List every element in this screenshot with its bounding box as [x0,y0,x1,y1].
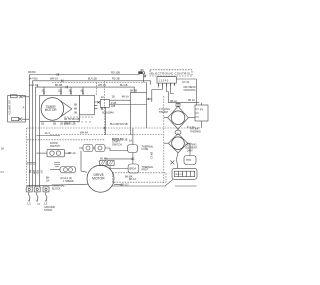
svg-text:LID SWITCH: LID SWITCH [8,100,11,115]
wire timer pin 3B stub [70,87,72,95]
splice X right1 [170,160,174,164]
wire 1a-4 short line [36,135,60,137]
wire ec right link [176,78,196,80]
svg-text:9B: 9B [74,112,77,115]
svg-text:1A: 1A [101,96,104,99]
ec pin ticks [159,83,175,86]
wire left lid box bottom link [22,118,30,120]
terminal L2 [43,187,49,192]
svg-text:RD BU: RD BU [28,71,36,74]
wire cord L2 [46,192,48,201]
timer cam pointer [61,101,72,117]
svg-text:BK-8B: BK-8B [130,90,138,93]
svg-text:12B: 12B [111,105,116,108]
svg-text:1A: 1A [129,139,132,142]
node dashed crossing dot [104,127,106,129]
timer outer box [40,95,80,121]
wire buzzer left link [50,169,60,171]
heater2 top oval [175,130,181,134]
svg-text:14-4 BU: 14-4 BU [29,77,38,80]
wire heater1 top stub [177,103,179,107]
wire timer pin 6B stub [82,87,84,95]
svg-text:STRAP: STRAP [44,209,53,212]
svg-text:RD-2A BU-1B: RD-2A BU-1B [112,139,128,142]
wire strip to bottom line [111,179,173,186]
svg-text:8B: 8B [74,108,77,111]
timer motor circle [41,98,64,121]
drive motor circle [87,165,114,192]
svg-text:14-4 GY: 14-4 GY [29,84,39,87]
connector ticks on buses [43,73,92,123]
heater lower blob [170,153,197,180]
wire dashed vertical left [26,128,28,183]
heater1 top terminal [176,103,180,106]
svg-text:WH: WH [32,170,35,174]
svg-text:CONTROL: CONTROL [184,89,197,92]
timer contact bank box [80,95,95,115]
wire timer pin 12B stub [60,87,62,95]
unbalance switch box [47,149,65,156]
terminal L1 [26,187,32,192]
svg-text:RD: RD [36,170,39,174]
wire blob drop [143,74,145,82]
wire ec feeder a [146,82,148,128]
motor terminal box2 [108,161,115,166]
belt switch blob [128,145,138,153]
wire terminal block line [26,185,51,187]
wire dashed vertical bank [95,82,97,95]
wire motor right to bottom line [114,184,121,186]
wire dashed right enclosure [163,96,165,183]
wire regulator bottom drop [201,121,203,128]
buzzer comp [60,167,76,173]
svg-text:BR2A: BR2A [130,168,137,171]
svg-text:4B 7B 9B 11B: 4B 7B 9B 11B [64,118,80,121]
wire cord end ticks [28,200,47,202]
svg-text:BU-1B: BU-1B [120,84,128,87]
connector ticks timer pins [43,92,45,93]
wire motor bottom-left feed [51,184,88,185]
wire bus L1 top [29,74,139,76]
svg-text:THERMO: THERMO [190,131,201,134]
wire cord N [37,192,39,201]
node junction dot right column [148,98,150,100]
wire small box right link [109,104,146,106]
start switch comp2 [95,145,105,152]
svg-text:BU-12B: BU-12B [88,77,97,80]
wire cord L1 [29,192,31,201]
svg-text:THERM: THERM [159,111,168,114]
svg-text:BK: BK [141,69,145,72]
electronic control inner box [157,77,176,83]
wire bus N [32,81,150,85]
node junction terminals top right [139,72,146,77]
svg-text:2A: 2A [1,148,4,151]
regulator box right [195,105,208,121]
svg-text:2B 6B 8B 12B: 2B 6B 8B 12B [60,123,76,126]
wire bus N left drop [31,81,33,187]
svg-text:BK-1A: BK-1A [129,178,137,181]
wire center column between blobs [132,153,134,165]
svg-text:N: N [38,202,40,206]
svg-text:2A-: 2A- [46,180,50,183]
svg-text:BK-GY: BK-GY [121,184,129,187]
wire drive motor left feed [65,152,71,154]
svg-text:GY: GY [40,170,43,174]
terminal strip right [172,168,197,179]
bank bottom row2 ticks [66,121,90,123]
center lower blob [128,164,139,173]
svg-text:MOTOR: MOTOR [92,177,105,181]
terminal N [34,187,40,192]
wire comp to blob [105,148,128,151]
svg-text:PROT: PROT [142,169,149,172]
wire dashed harness line B [50,133,164,135]
heater2 circle [172,137,185,150]
wire bus L2 left drop [35,87,37,187]
wire relay drop right [130,100,132,135]
wire bus L1 left drop [28,75,30,188]
wire series comps link [93,147,95,149]
fuse top-left inline [10,95,17,98]
svg-text:MOTOR: MOTOR [45,108,58,112]
wire bottom line right [175,185,197,187]
switch box left assembly [8,96,26,123]
wire ec feeder b [151,90,153,103]
svg-text:2B: 2B [112,96,115,99]
svg-text:HTR: HTR [186,159,191,162]
heater1 diamond [168,106,189,129]
wire dryness feed [167,92,169,103]
svg-text:1B: 1B [41,123,44,126]
svg-text:GY: GY [1,171,5,174]
electronic control dashed box [150,70,192,76]
svg-text:a b c d: a b c d [176,173,184,176]
svg-text:L1: L1 [28,202,32,206]
wire ec pin drops [158,83,160,87]
splice hook [177,153,178,169]
svg-text:BK: BK [28,170,31,174]
relay box center [100,100,109,108]
wire bus L2 [36,87,135,93]
svg-text:SWITCH: SWITCH [112,143,122,146]
wire relay right link [131,93,135,101]
svg-text:4B 1A: 4B 1A [188,99,195,102]
wire right ec drop [195,79,197,105]
svg-text:BLOCK: BLOCK [52,187,61,190]
svg-text:BK-1A: BK-1A [69,152,77,155]
wire series comps to motor area [79,147,83,149]
wire regulator drop [201,103,203,105]
svg-text:1 SPEED: 1 SPEED [63,180,74,183]
start switch comp1 [83,145,93,152]
wire junction drop right column [147,98,152,100]
svg-text:5B: 5B [53,123,56,126]
fuse bottom-left inline [12,118,19,121]
svg-text:WH-2A: WH-2A [98,84,106,87]
svg-text:M1 M2: M1 M2 [100,158,108,161]
heater1 circle [171,111,185,125]
wire right column top [168,102,199,104]
svg-text:BU-10B WH-5B: BU-10B WH-5B [110,123,128,126]
svg-text:FUSE: FUSE [142,148,149,151]
terminal X top-left [19,95,22,98]
motor terminal box1 [100,161,107,166]
svg-text:1 2 3 4 5: 1 2 3 4 5 [159,80,169,83]
svg-text:SWITCH: SWITCH [50,145,60,148]
connector ticks left verticals [26,163,35,165]
connector ticks blob column [131,158,134,160]
svg-text:BK-6B: BK-6B [55,84,63,87]
svg-text:240V: 240V [187,150,193,153]
svg-text:RD-3B: RD-3B [112,77,120,80]
wire blob2 to motor [110,166,128,168]
wire vertical 4th drop [39,122,41,188]
wire corner run y86.6 [134,92,146,94]
svg-text:B-1A2B4A: B-1A2B4A [102,111,114,114]
small symbol below [54,163,60,167]
wire heater1 bottom to heater2 [177,129,179,130]
cabinet dashed box bottom [113,173,167,182]
bank right stubs [94,102,100,109]
svg-text:6B: 6B [74,104,77,107]
wire upper motor horizontal [104,158,132,160]
svg-text:GY-3A: GY-3A [182,81,190,84]
wire dashed harness line A [27,127,200,129]
wire switch left feed [36,152,47,154]
wire center column vertical [132,128,134,145]
svg-text:4B-1A: 4B-1A [170,100,177,103]
terminal X bottom-left [19,118,22,121]
svg-text:1A-4: 1A-4 [45,132,51,135]
svg-text:4B-1A: 4B-1A [122,96,129,99]
heater2 diamond [168,134,187,153]
svg-text:WH-4A: WH-4A [80,132,88,135]
svg-text:ELECTRONIC CONTROL: ELECTRONIC CONTROL [151,71,191,75]
wire hi-limit link [188,143,190,155]
svg-text:WH-1A: WH-1A [50,77,58,80]
wire left lid box top link [23,96,30,98]
wire comp1 drop to motor [81,151,87,173]
wire timer pin 2B stub [43,87,45,95]
wire dashed harness line C [27,139,104,141]
connector ticks bank bottom [65,116,92,118]
wire dashed vertical center [103,81,105,136]
svg-text:BK-12: BK-12 [150,152,153,160]
svg-text:RD-10B: RD-10B [111,72,120,75]
